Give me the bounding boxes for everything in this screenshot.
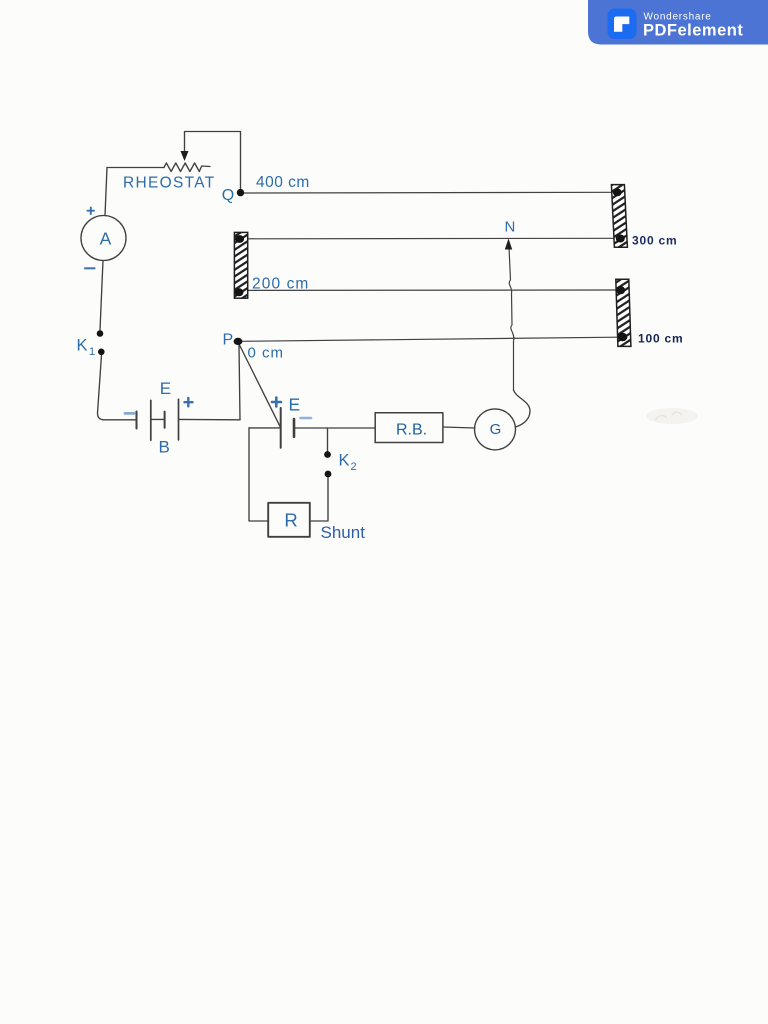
svg-text:P: P: [223, 332, 234, 349]
svg-text:200 cm: 200 cm: [252, 276, 309, 293]
svg-text:A: A: [100, 229, 112, 249]
svg-text:G: G: [490, 421, 502, 438]
svg-text:Q: Q: [222, 187, 234, 204]
svg-text:PDFelement: PDFelement: [643, 22, 743, 40]
svg-text:2: 2: [351, 461, 357, 473]
svg-text:E: E: [289, 395, 301, 415]
svg-text:N: N: [505, 219, 516, 236]
svg-text:K: K: [339, 452, 350, 470]
svg-text:B: B: [159, 438, 170, 457]
svg-text:K: K: [77, 337, 88, 355]
svg-text:400 cm: 400 cm: [256, 174, 310, 191]
svg-text:R.B.: R.B.: [396, 422, 427, 439]
svg-text:E: E: [160, 379, 171, 398]
svg-text:1: 1: [89, 346, 95, 358]
svg-text:300 cm: 300 cm: [632, 234, 678, 248]
svg-text:0 cm: 0 cm: [248, 344, 285, 361]
svg-text:100 cm: 100 cm: [638, 332, 684, 346]
svg-text:R: R: [284, 510, 297, 531]
svg-text:RHEOSTAT: RHEOSTAT: [123, 175, 216, 192]
svg-text:Shunt: Shunt: [321, 523, 366, 542]
